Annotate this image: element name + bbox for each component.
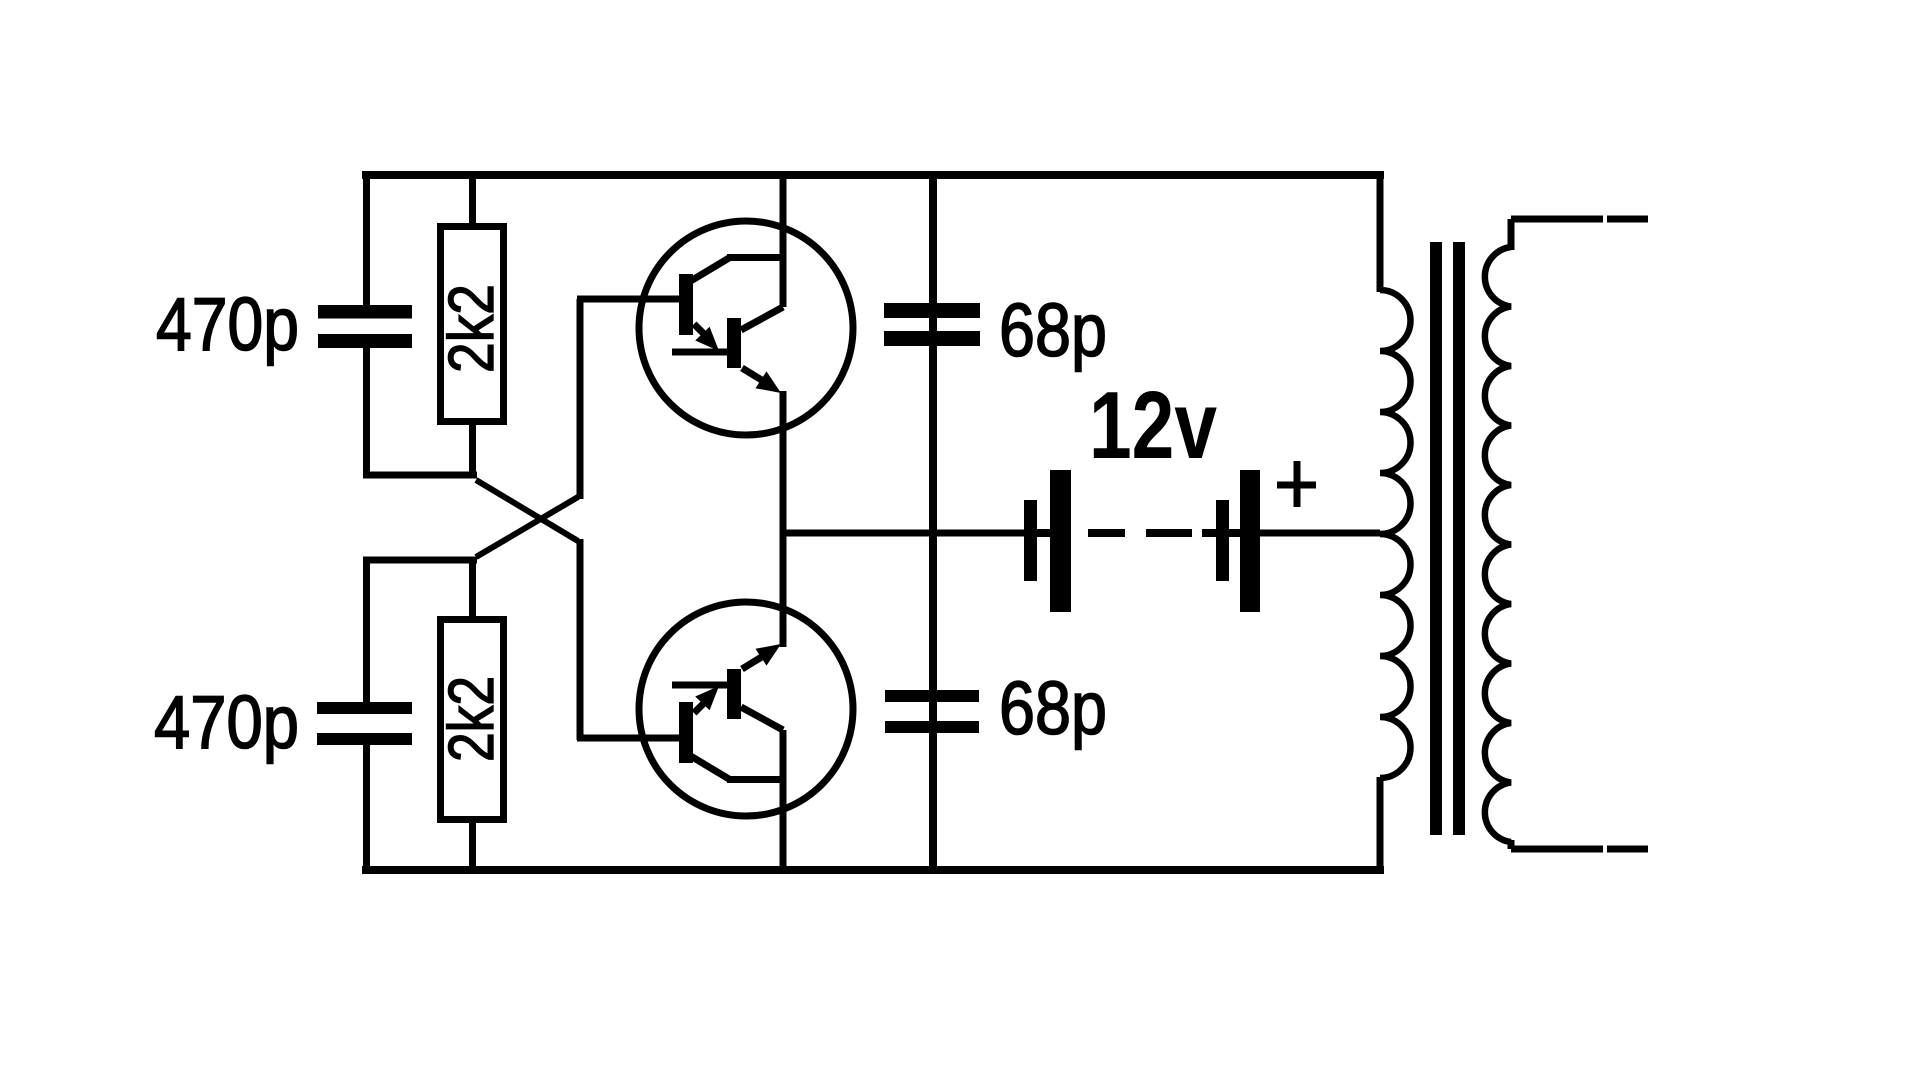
wire lower section top (363, 557, 477, 564)
wire battery stub1 (1037, 529, 1050, 537)
battery B1 cell2 long plate (1240, 470, 1260, 612)
capacitor C2 470p top plate (317, 702, 412, 714)
wire R1 bottom stub (469, 423, 476, 475)
transformer T1 primary winding (1380, 290, 1410, 778)
wire secondary top lead (1511, 219, 1648, 250)
capacitor C3 68p bottom plate (884, 331, 980, 346)
transformer T1 secondary winding (1485, 247, 1511, 842)
capacitor C3 68p top plate (884, 303, 980, 318)
transistor Q1 (upper darlington) (577, 221, 853, 435)
wire transformer primary bottom lead (1377, 777, 1384, 874)
wire middle vertical through 68p caps (929, 171, 937, 874)
wire vertical to upper transistor base (577, 299, 584, 499)
wire left vertical below C2 (363, 744, 370, 870)
wire cross-coupling diagonal from top section to lower base (476, 480, 578, 541)
svg-text:470p: 470p (156, 282, 299, 366)
wire Q1 collector vertical (780, 171, 787, 307)
wire left vertical above C2 (363, 560, 370, 703)
wire battery to transformer center tap (1260, 530, 1380, 537)
wire top rail (362, 171, 1384, 179)
wire R1 top stub (469, 173, 476, 228)
resistor R2 box (441, 620, 504, 820)
transistor Q2 (lower darlington, mirrored) (577, 602, 853, 816)
wire battery stub2 (1202, 529, 1216, 537)
battery B1 cell2 short plate (1216, 500, 1229, 581)
battery plus sign (1277, 461, 1316, 507)
wire left vertical above C1 (363, 173, 370, 306)
wire vertical to lower transistor base (577, 539, 584, 740)
wire secondary bottom lead (1511, 840, 1648, 849)
wire shared emitter vertical (780, 391, 787, 647)
resistor R1 box (441, 227, 504, 422)
wire bottom rail (362, 866, 1384, 874)
svg-text:2k2: 2k2 (435, 284, 507, 373)
transformer T1 core right bar (1453, 242, 1465, 835)
capacitor C2 470p bottom plate (317, 733, 412, 745)
battery B1 cell1 short plate (1024, 500, 1037, 581)
wire cross-coupling diagonal from lower section to upper base (476, 497, 578, 557)
transformer T1 core left bar (1430, 242, 1442, 835)
wire battery dash B (1146, 529, 1192, 537)
svg-text:68p: 68p (999, 666, 1107, 750)
capacitor C1 470p top plate (318, 305, 412, 319)
svg-text:470p: 470p (154, 680, 299, 764)
wire Q2 collector vertical (780, 730, 787, 874)
svg-text:2k2: 2k2 (435, 676, 507, 762)
wire top section bottom (363, 472, 477, 479)
wire battery dash A (1088, 529, 1125, 537)
capacitor C4 68p top plate (885, 690, 979, 702)
wire R2 bottom stub (469, 818, 476, 870)
wire center to battery (780, 530, 1025, 537)
wire battery stub3 (1229, 529, 1240, 537)
svg-text:68p: 68p (999, 288, 1107, 372)
capacitor C4 68p bottom plate (885, 721, 979, 733)
wire left vertical below C1 (363, 347, 370, 478)
battery B1 cell1 long plate (1050, 470, 1071, 612)
capacitor C1 470p bottom plate (318, 334, 412, 348)
svg-text:12v: 12v (1089, 372, 1217, 479)
wire transformer primary top lead (1377, 171, 1384, 292)
wire R2 top stub (469, 560, 476, 620)
